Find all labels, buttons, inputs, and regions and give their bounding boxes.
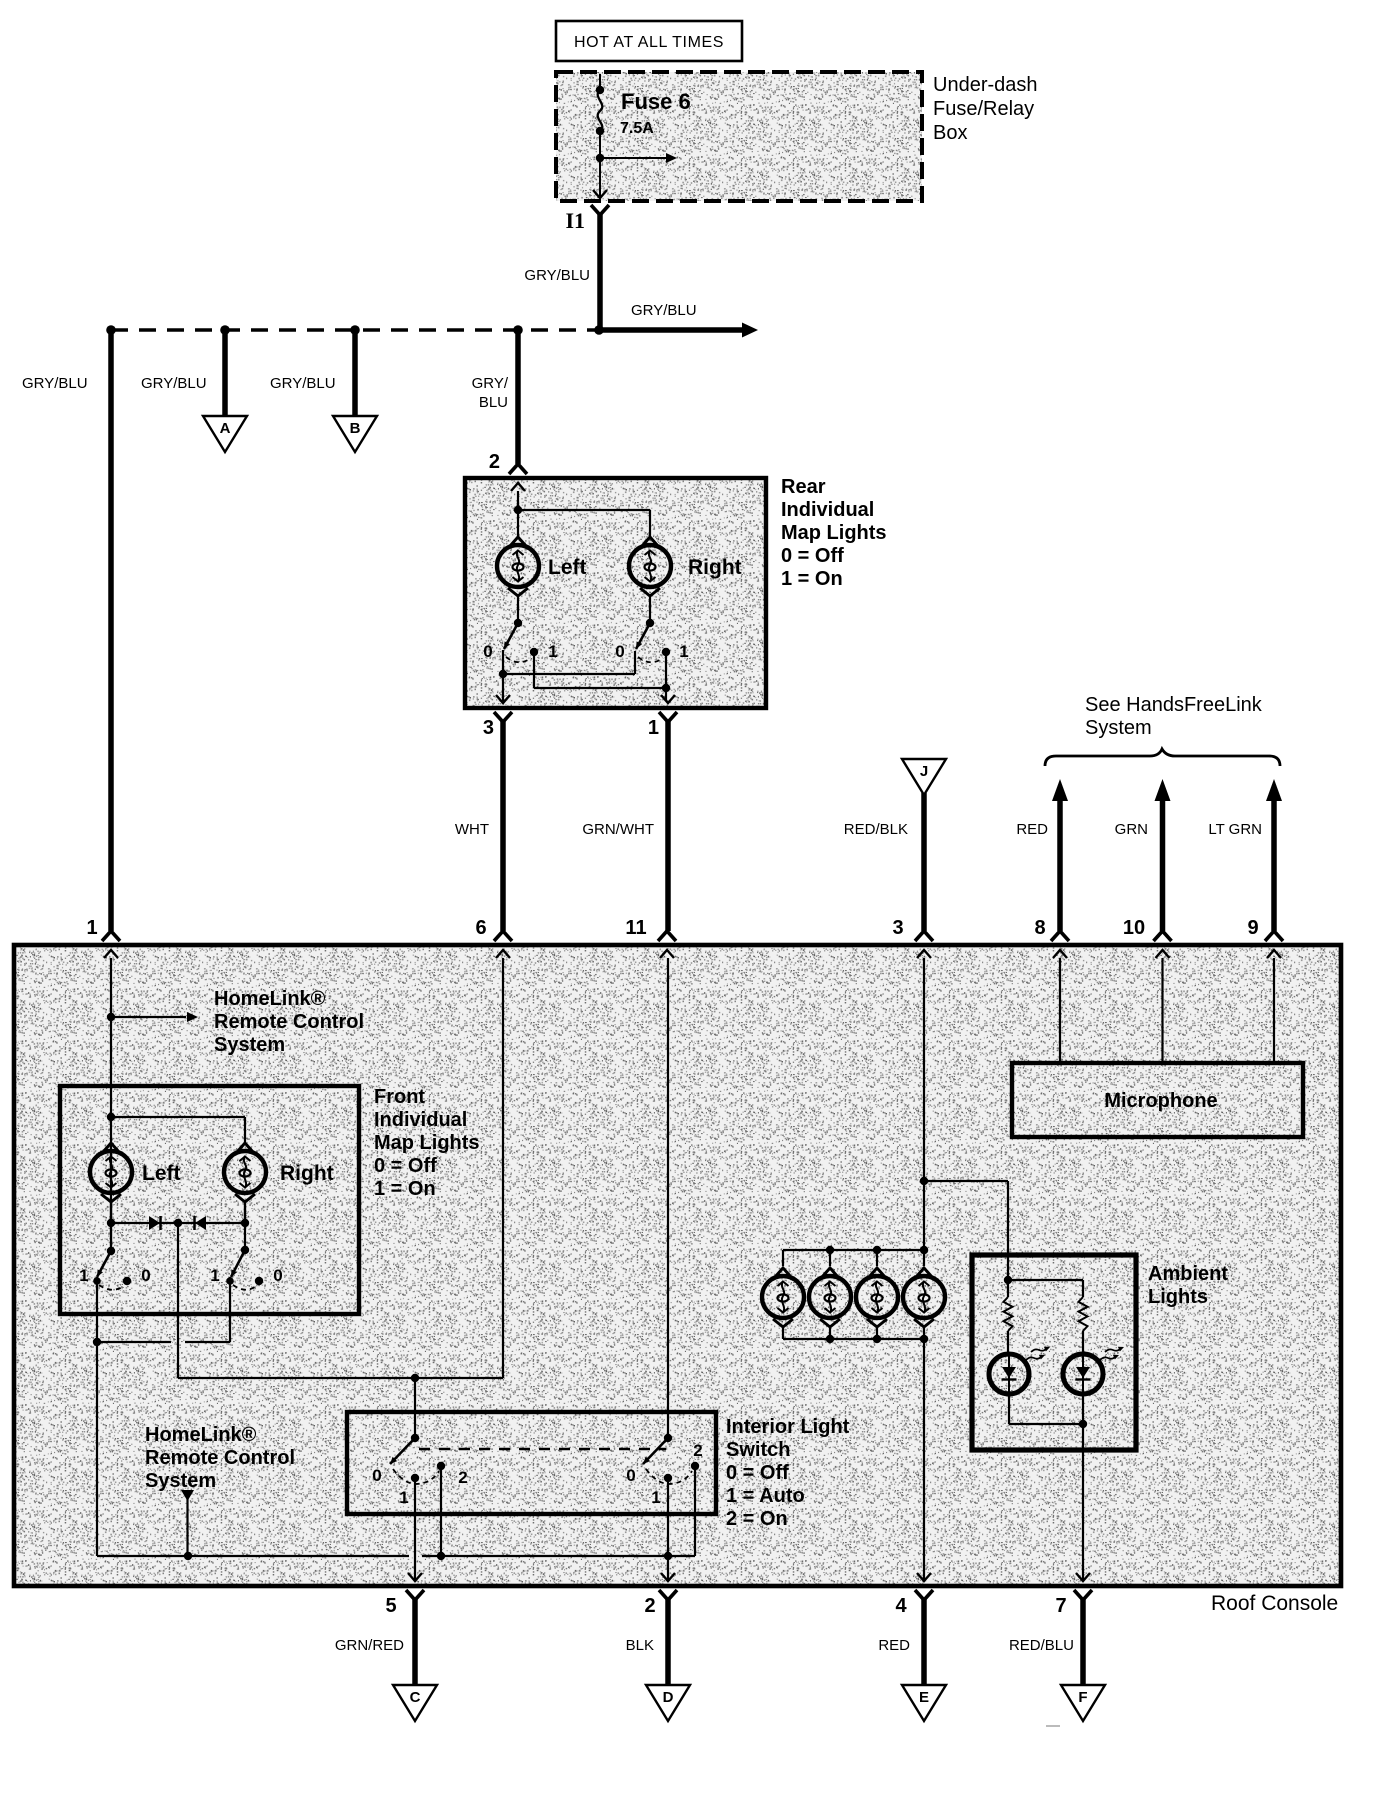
wire to connector B [270,330,355,415]
svg-text:5: 5 [385,1595,396,1617]
front left lamp switch [79,1247,150,1290]
svg-text:1: 1 [399,1488,408,1507]
svg-text:0 = Off: 0 = Off [726,1462,789,1484]
svg-text:2 = On: 2 = On [726,1508,788,1530]
svg-text:J: J [920,763,928,780]
svg-text:2: 2 [644,1595,655,1617]
svg-text:LT GRN: LT GRN [1208,821,1262,838]
svg-text:Map Lights: Map Lights [781,522,887,544]
svg-text:Left: Left [142,1162,181,1185]
resistor R2 [1079,1297,1088,1331]
wire: fuse output arrow branch [596,153,677,163]
front right map lamp [224,1143,334,1202]
microphone box [1012,1063,1303,1137]
roof console pin 6 connector [475,917,512,958]
LED 1 [989,1347,1050,1394]
wire: rear switch 1-contacts common to pin 1 [534,652,670,701]
front right lamp switch [210,1246,282,1290]
wire LT GRN to handsfreelink (arrow up) [1208,779,1282,931]
connector B [333,416,377,452]
svg-text:2: 2 [693,1441,702,1460]
svg-text:System: System [145,1470,216,1492]
svg-text:BLK: BLK [626,1637,654,1654]
svg-text:1 = On: 1 = On [781,568,843,590]
front individual map lights box [60,1086,480,1314]
svg-text:Under-dash: Under-dash [933,74,1038,96]
interior switch mechanical link (dashed) [419,1448,666,1451]
LED 2 [1063,1347,1124,1394]
svg-text:GRY/BLU: GRY/BLU [631,302,697,319]
wire: pin 1 feed down to front map lights [110,958,112,1251]
svg-text:GRN/RED: GRN/RED [335,1637,404,1654]
interior light switch box [347,1412,850,1530]
svg-text:Right: Right [280,1162,334,1185]
svg-text:F: F [1078,1689,1087,1706]
wire 1: GRY/BLU to roof pin 1 [22,330,111,931]
svg-text:0: 0 [615,642,624,661]
connector I1 [565,205,609,233]
wire: ambient feed [1004,1181,1083,1297]
diode D1 (facing right) [149,1216,161,1230]
ambient lights box [972,1255,1228,1450]
wire: LED returns to pin 7 [1009,1394,1087,1581]
svg-text:GRY/BLU: GRY/BLU [524,267,590,284]
rear right lamp switch [615,619,688,662]
svg-text:Lights: Lights [1148,1286,1208,1308]
wire WHT to roof pin 6 [455,721,503,931]
svg-text:0: 0 [483,642,492,661]
svg-text:7.5A: 7.5A [620,120,654,137]
svg-text:1: 1 [210,1266,219,1285]
svg-text:GRN: GRN [1115,821,1148,838]
node: diode junction feed [174,1219,182,1378]
svg-text:A: A [220,420,231,437]
wire: pin 8 to microphone [1059,958,1061,1063]
wire: pin 10 to microphone [1161,958,1163,1063]
svg-text:Ambient: Ambient [1148,1263,1228,1285]
svg-text:System: System [1085,717,1152,739]
wire: pin 3 feed [920,958,1008,1250]
svg-text:0: 0 [141,1266,150,1285]
svg-text:RED: RED [1016,821,1048,838]
svg-text:I1: I1 [565,208,585,233]
svg-text:GRY/BLU: GRY/BLU [270,375,336,392]
svg-text:1: 1 [651,1488,660,1507]
svg-text:1: 1 [79,1266,88,1285]
homelink remote control system (top) label with arrow [107,988,364,1056]
wire: resistors to LEDs [1008,1331,1083,1354]
svg-text:GRN/WHT: GRN/WHT [582,821,654,838]
wire: front box feed branch [107,1113,245,1143]
resistor R1 [1004,1297,1013,1331]
svg-text:Individual: Individual [781,499,874,521]
roof console pin 1 connector [86,917,120,958]
svg-text:1 = On: 1 = On [374,1178,436,1200]
ceiling lamp bus top [783,1246,928,1266]
svg-text:HomeLink®: HomeLink® [214,988,326,1010]
roof console pin 4 connector [895,1573,933,1617]
svg-text:Rear: Rear [781,476,826,498]
wire: rear box feed [514,491,650,537]
front left map lamp [90,1143,181,1202]
svg-text:3: 3 [483,717,494,739]
under-dash fuse/relay box [556,72,1038,201]
rear box pin 2 connector [509,464,527,491]
svg-text:3: 3 [892,917,903,939]
interior light switch left pole [372,1434,467,1507]
roof console pin 3 connector [892,917,933,958]
wire GRN to handsfreelink (arrow up) [1115,779,1171,931]
svg-text:Fuse/Relay: Fuse/Relay [933,98,1034,120]
roof console pin 9 connector [1247,917,1283,958]
rear box pin 1 connector [648,695,677,739]
wire: rear switch 0-contacts common to pin 3 [499,650,635,701]
svg-text:GRY/BLU: GRY/BLU [141,375,207,392]
svg-text:1: 1 [679,642,688,661]
hot at all times box [556,21,742,61]
svg-text:0: 0 [626,1466,635,1485]
svg-text:0 = Off: 0 = Off [781,545,844,567]
rear box pin 3 connector [483,695,512,739]
see handsfreelink system label and brace [1045,694,1280,766]
wire: lamps to front switches [111,1202,245,1251]
wire RED/BLU to connector F [1009,1598,1083,1684]
svg-text:Right: Right [688,556,742,579]
connector A [203,416,247,452]
svg-text:C: C [410,1689,421,1706]
wire: interior switch 1-contact to pin 5 [414,1478,416,1581]
svg-text:E: E [919,1689,929,1706]
wire: pin 11 feed to interior switch right pole [667,958,669,1436]
wire GRY/BLU from I1 to bus [524,213,600,330]
svg-text:8: 8 [1034,917,1045,939]
svg-text:B: B [350,420,361,437]
wire GRN/WHT to roof pin 11 [582,721,668,931]
svg-text:Fuse 6: Fuse 6 [621,89,691,114]
rear right map lamp [629,537,742,596]
svg-text:0: 0 [372,1466,381,1485]
svg-text:1: 1 [548,642,557,661]
ceiling lamp 2 [809,1268,851,1327]
svg-text:Individual: Individual [374,1109,467,1131]
fuse 6 (7.5A) [596,74,691,158]
svg-text:Microphone: Microphone [1104,1090,1217,1112]
connector C [393,1685,437,1721]
wire: left net down to bottom bus [96,1342,98,1556]
wire: right 1-contact to pin 2 [667,1478,669,1581]
svg-text:Remote Control: Remote Control [214,1011,364,1033]
wire: front lamps to diode bar [107,1202,249,1227]
wire RED to connector E [878,1598,924,1684]
svg-text:Interior Light: Interior Light [726,1416,850,1438]
svg-text:RED/BLK: RED/BLK [844,821,908,838]
svg-text:7: 7 [1055,1595,1066,1617]
connector F [1061,1685,1105,1721]
bus: dashed GRY/BLU distribution [106,325,604,335]
roof console pin 7 connector [1055,1573,1092,1617]
svg-text:0 = Off: 0 = Off [374,1155,437,1177]
svg-text:D: D [663,1689,674,1706]
svg-text:1: 1 [86,917,97,939]
svg-text:HomeLink®: HomeLink® [145,1424,257,1446]
rear left lamp switch [483,619,557,662]
homelink output arrow to ground bus [181,1490,194,1556]
roof console pin 8 connector [1034,917,1069,958]
wire: fuse to box bottom [593,158,607,198]
svg-text:1 = Auto: 1 = Auto [726,1485,805,1507]
svg-text:RED/BLU: RED/BLU [1009,1637,1074,1654]
wire: bus arrow right GRY/BLU [599,302,758,338]
svg-text:2: 2 [489,451,500,473]
rear left map lamp [497,537,587,596]
svg-text:10: 10 [1123,917,1145,939]
ceiling lamp 3 [856,1268,898,1327]
svg-text:1: 1 [648,717,659,739]
connector D [646,1685,690,1721]
homelink remote control system (bottom) label [145,1424,295,1492]
svg-text:Map Lights: Map Lights [374,1132,480,1154]
wire: front switch 1-contacts joined [93,1277,230,1346]
diode D2 (facing left) [195,1216,207,1230]
scan artifact dash [1046,1725,1060,1727]
svg-text:0: 0 [273,1266,282,1285]
interior light switch right pole [626,1434,702,1507]
wire: lamps to switches [518,596,650,623]
svg-text:See HandsFreeLink: See HandsFreeLink [1085,694,1263,716]
wire: interior switch 2-contacts / ground bus [97,1466,695,1560]
svg-text:11: 11 [625,917,646,939]
svg-text:GRY/BLU: GRY/BLU [22,375,88,392]
svg-text:GRY/: GRY/ [472,375,509,392]
svg-text:4: 4 [895,1595,907,1617]
ceiling lamp 1 [762,1268,804,1327]
ceiling lamp 4 [903,1268,945,1327]
svg-text:Left: Left [548,556,587,579]
roof console pin 11 connector [625,917,676,958]
connector E [902,1685,946,1721]
svg-text:Switch: Switch [726,1439,790,1461]
ceiling lamp bus bottom [783,1328,928,1343]
svg-text:2: 2 [458,1468,467,1487]
rear individual map lights box [465,476,887,708]
wire RED to handsfreelink (arrow up) [1016,779,1068,931]
wire: GRY/BLU to rear map lights pin 2 [472,330,518,473]
connector J [902,759,946,795]
svg-text:6: 6 [475,917,486,939]
roof console pin 10 connector [1123,917,1172,958]
svg-text:Front: Front [374,1086,425,1108]
wire: WHT net bus to interior switch [178,958,503,1438]
svg-text:HOT AT ALL TIMES: HOT AT ALL TIMES [574,34,724,51]
svg-text:RED: RED [878,1637,910,1654]
wire BLK to connector D [626,1598,668,1684]
roof console box [14,945,1341,1615]
svg-text:9: 9 [1247,917,1258,939]
roof console pin 5 connector [385,1573,424,1617]
wire to connector A [141,330,225,415]
svg-text:Roof Console: Roof Console [1211,1592,1338,1615]
wire: lamp return to pin 4 [923,1339,925,1581]
svg-text:System: System [214,1034,285,1056]
wire GRN/RED to connector C [335,1598,415,1684]
svg-text:WHT: WHT [455,821,489,838]
svg-text:Box: Box [933,122,967,144]
wire RED/BLK to roof pin 3 [844,793,924,931]
wire: pin 9 to microphone [1273,958,1275,1063]
roof console pin 2 connector [644,1573,677,1617]
svg-text:Remote Control: Remote Control [145,1447,295,1469]
svg-text:BLU: BLU [479,394,508,411]
